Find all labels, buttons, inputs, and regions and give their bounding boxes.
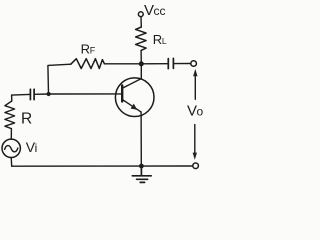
wire emitter vertical: [140, 112, 142, 166]
node output terminal top: [191, 61, 197, 67]
wire Vcc to RL: [140, 17, 142, 27]
wire collector node to output capacitor: [141, 63, 167, 65]
resistor R: [5, 101, 15, 129]
wire R to source: [10, 129, 12, 140]
transistor Q1: [115, 78, 154, 117]
wire RF right segment: [104, 63, 138, 65]
node Vcc terminal: [138, 12, 143, 17]
wire capacitor to output terminal: [174, 63, 190, 65]
svg-text:Vi: Vi: [26, 139, 38, 155]
wire output arrow lower: [193, 125, 197, 160]
resistor RL: [136, 27, 147, 50]
ground: [132, 166, 151, 182]
svg-text:RL: RL: [153, 32, 167, 47]
wire source to bottom rail: [10, 158, 13, 167]
capacitor C1: [30, 89, 34, 99]
resistor RF: [71, 59, 105, 69]
svg-text:RF: RF: [81, 42, 96, 57]
wire base node to transistor base: [49, 93, 122, 95]
wire left column top: [11, 95, 13, 101]
wire capacitor to base node: [35, 93, 49, 95]
wire bottom rail: [12, 165, 193, 167]
node emitter-ground junction: [139, 164, 144, 169]
wire output arrow upper: [193, 69, 197, 99]
wire collector vertical: [140, 66, 142, 79]
svg-text:R: R: [21, 111, 32, 128]
source Vi: [2, 139, 20, 157]
node base junction: [47, 92, 51, 96]
svg-text:Vcc: Vcc: [144, 2, 166, 19]
wire input left top: [12, 93, 30, 96]
wire RL to collector node: [140, 50, 142, 63]
svg-text:Vo: Vo: [187, 102, 204, 119]
node collector junction: [139, 61, 144, 66]
node output terminal bottom: [193, 163, 199, 169]
capacitor C2: [168, 58, 173, 68]
wire RF left segment and down to base node: [48, 64, 71, 94]
